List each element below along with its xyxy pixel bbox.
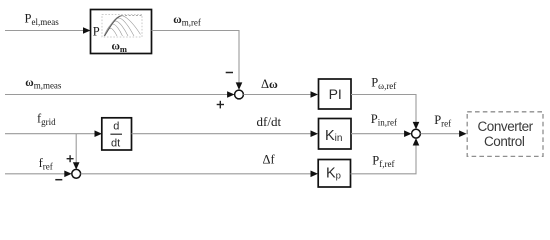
wire df/dt to Kin [132,133,316,135]
plus sign at junction3 [67,155,74,162]
svg-text:df/dt: df/dt [257,114,282,129]
svg-text:Δf: Δf [263,153,276,167]
svg-text:Δω: Δω [261,77,278,91]
svg-text:ω: ω [25,77,33,89]
wire wm,meas input [5,94,231,96]
summing junction 1 [235,90,244,99]
wire f_grid input [5,133,100,135]
arrowhead into junction3 left [64,171,72,178]
mini plot [102,15,142,38]
svg-text:m,ref: m,ref [182,18,201,28]
block d/dt [102,118,132,150]
svg-text:PI: PI [329,86,342,102]
arrowhead into converter control [459,130,467,137]
wire wm,ref from block to junction1 [152,31,240,88]
svg-text:dt: dt [111,137,120,149]
wire P_w,ref from PI to junction2 top [351,95,416,127]
wire P_in,ref from Kin to junction2 [351,133,409,135]
block MPPT power curves (P vs wm) [91,10,152,54]
arrowhead into Kp [311,171,319,178]
wire P_ref to converter control [420,133,464,135]
svg-text:m,meas: m,meas [34,81,62,91]
minus sign at junction3 [55,179,62,181]
arrowhead into MPPT block [83,27,91,34]
arrowhead up into junction2 [413,138,420,146]
svg-text:P: P [93,25,100,39]
arrowhead into Kin [311,130,319,137]
plus sign at junction1 [217,101,224,109]
arrowhead down into junction1 [236,82,243,90]
block Kp [318,160,350,188]
wire delta-f to Kp [81,173,316,175]
svg-text:ω: ω [173,14,181,26]
svg-text:Converter: Converter [478,119,534,134]
arrowhead into junction2 left [404,130,412,137]
wire delta-omega to PI [243,94,315,96]
wire tap from f_grid down to junction3 [75,134,77,167]
block Converter Control (dashed) [467,112,543,157]
svg-text:Control: Control [484,134,525,149]
arrowhead into PI [311,91,319,98]
arrowhead into junction1 left [227,91,235,98]
arrowhead down into junction3 [73,162,80,170]
summing junction 3 [72,169,81,178]
minus sign at junction1 [226,72,233,74]
svg-text:d: d [113,121,119,133]
wire f_ref input [5,173,69,175]
arrowhead into d/dt [95,130,103,137]
wire P_el,meas input [5,30,88,32]
summing junction 2 [412,129,421,138]
wire P_f,ref from Kp to junction2 bottom [351,141,417,174]
arrowhead down into junction2 [413,122,420,130]
block Kin [319,119,352,150]
block PI [319,79,352,109]
